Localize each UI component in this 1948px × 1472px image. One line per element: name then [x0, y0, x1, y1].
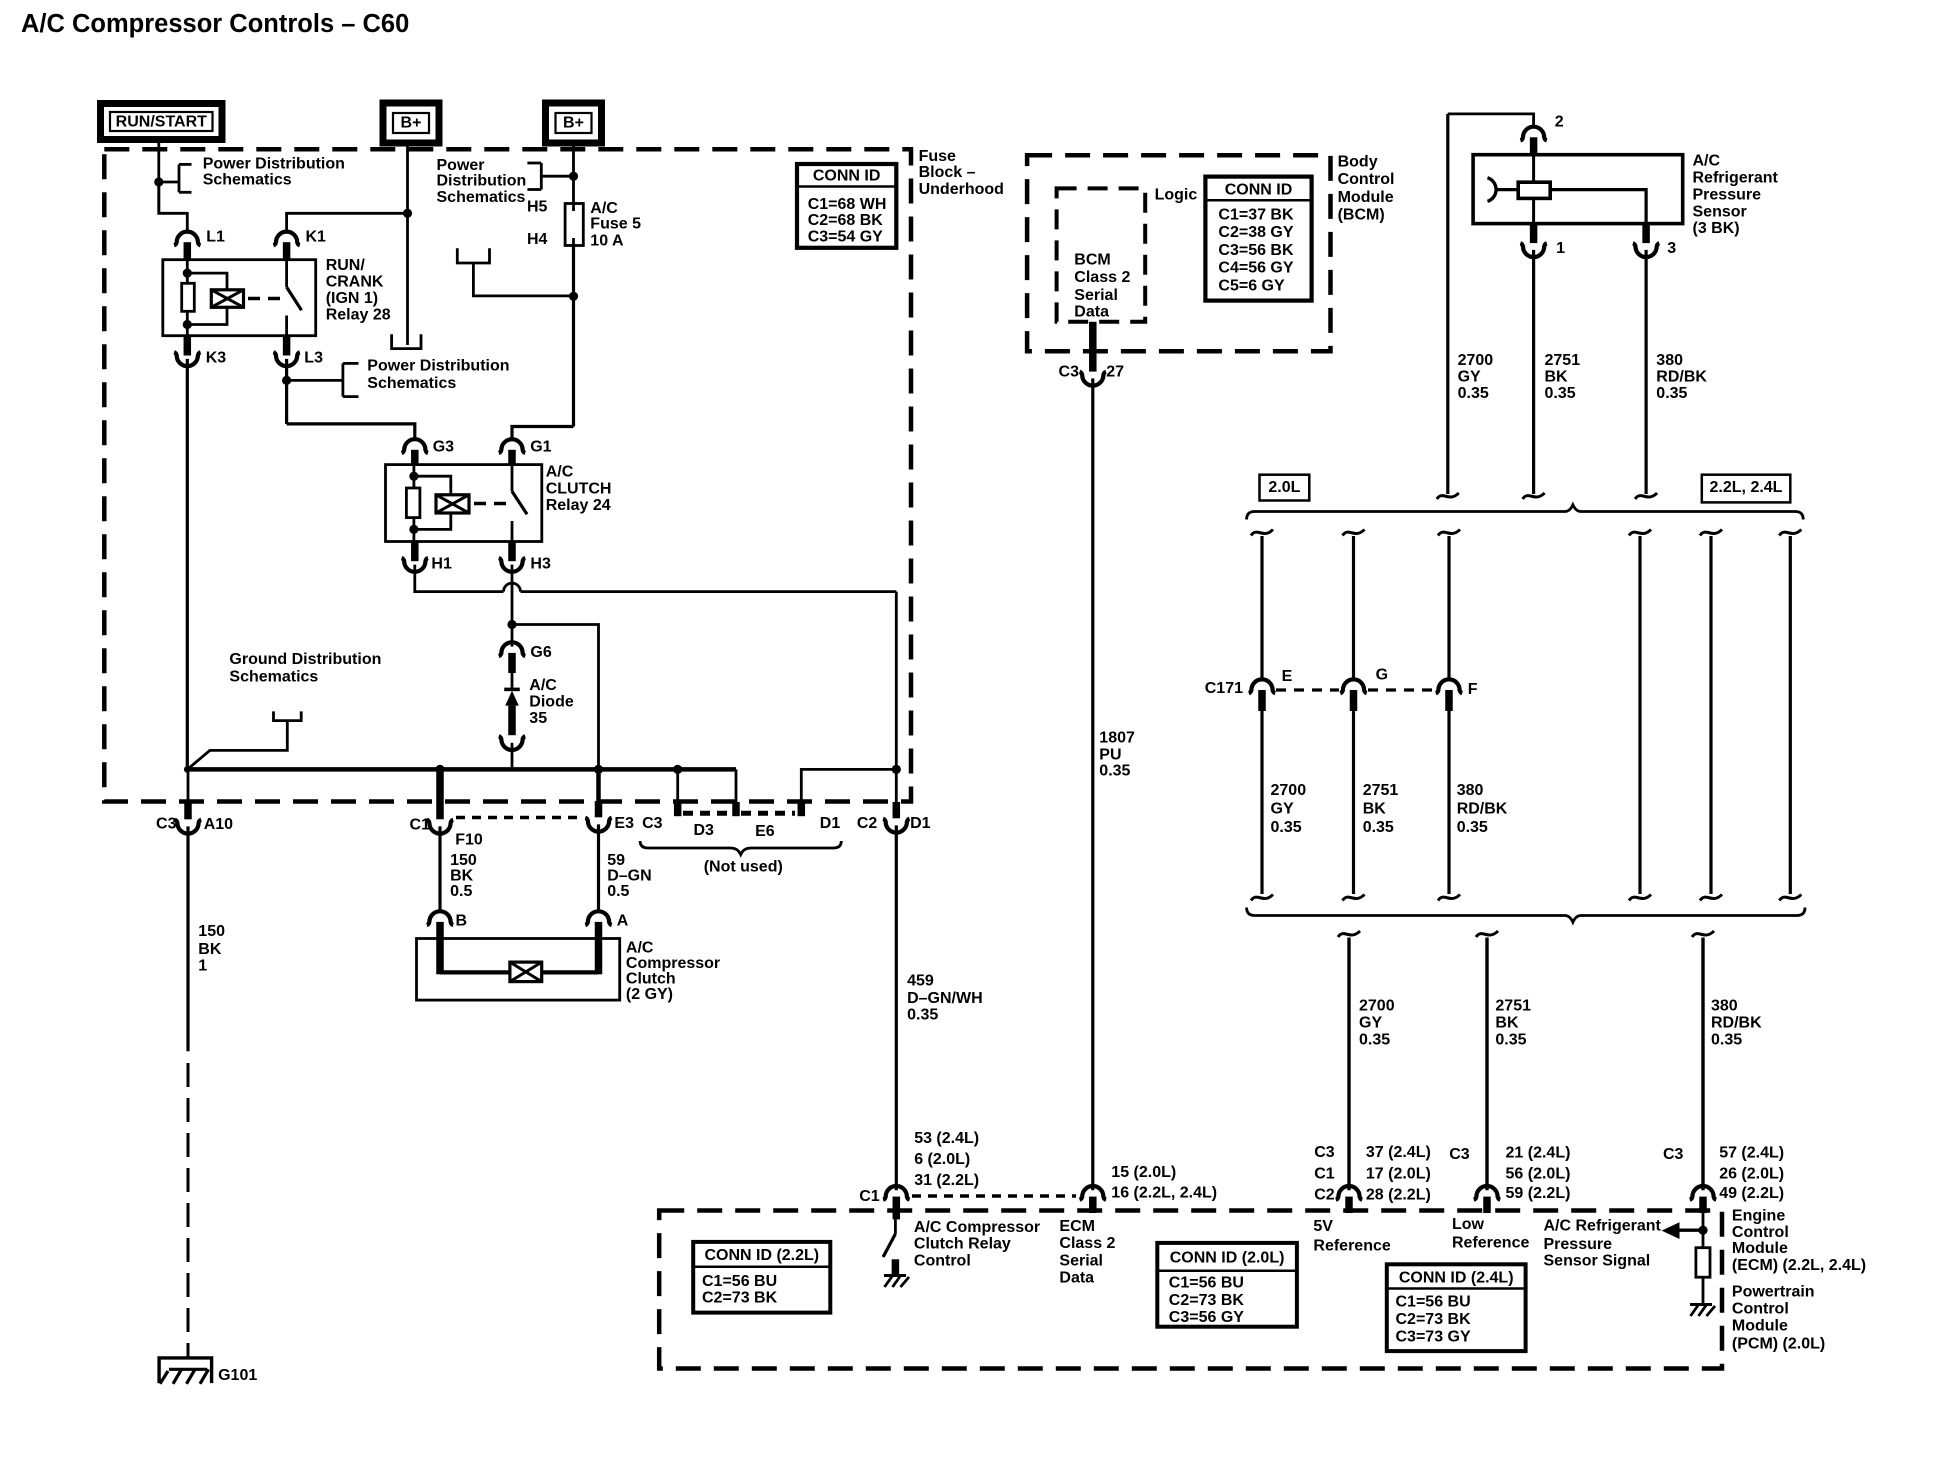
svg-text:2751: 2751 [1545, 352, 1581, 369]
wire 380 upper [1644, 250, 1647, 494]
svg-text:A10: A10 [204, 816, 233, 833]
svg-text:G1: G1 [530, 439, 551, 456]
svg-text:2700: 2700 [1271, 782, 1307, 799]
svg-text:PU: PU [1099, 747, 1121, 764]
svg-text:0.35: 0.35 [1495, 1032, 1526, 1049]
not-used stub E6 [735, 769, 738, 802]
BCM dashed box [1027, 155, 1330, 351]
svg-text:0.35: 0.35 [1359, 1032, 1390, 1049]
svg-text:D3: D3 [694, 822, 715, 839]
CONN ID table (2.2L) [693, 1242, 830, 1313]
connector K3 [184, 336, 192, 356]
svg-text:21 (2.4L): 21 (2.4L) [1506, 1144, 1571, 1161]
svg-text:C3: C3 [156, 816, 177, 833]
svg-text:D1: D1 [910, 815, 931, 832]
connector C2 D1 [893, 802, 901, 818]
tilde mid-top 2 [1343, 530, 1365, 536]
wire mid 5 [1709, 536, 1712, 894]
sensor internal wires [1532, 155, 1535, 224]
connector C171 G [1340, 679, 1366, 693]
wire 49 inside ECM [1702, 1213, 1705, 1248]
svg-text:1807: 1807 [1099, 730, 1135, 747]
svg-text:G3: G3 [433, 439, 454, 456]
connector 5V ref [1336, 1186, 1362, 1200]
svg-text:G: G [1376, 666, 1388, 683]
svg-text:Module: Module [1732, 1240, 1788, 1257]
svg-text:0.35: 0.35 [1271, 819, 1302, 836]
svg-text:ECM: ECM [1059, 1218, 1095, 1235]
svg-text:Logic: Logic [1155, 186, 1198, 203]
off-page cup (ground dist) [274, 711, 302, 720]
svg-text:C2=73 BK: C2=73 BK [1396, 1311, 1472, 1328]
wire H3 branch to E3 column [512, 625, 599, 770]
svg-text:1: 1 [198, 958, 207, 975]
engine box 2.0L [1260, 475, 1310, 501]
svg-text:CRANK: CRANK [326, 274, 384, 291]
connector Low ref [1474, 1186, 1500, 1200]
tilde 2751 [1523, 493, 1545, 499]
svg-text:0.35: 0.35 [1458, 385, 1489, 402]
wire RUN/START down [157, 140, 160, 214]
svg-text:Power: Power [437, 157, 485, 174]
svg-text:H3: H3 [530, 555, 551, 572]
svg-text:Sensor: Sensor [1693, 203, 1747, 220]
svg-text:Pressure: Pressure [1693, 186, 1762, 203]
relay 24 box [386, 465, 542, 542]
svg-text:0.35: 0.35 [1711, 1032, 1742, 1049]
connector G6 [499, 642, 525, 656]
svg-text:F: F [1468, 681, 1478, 698]
fuse F5 A/C 10A [565, 204, 583, 246]
svg-text:Ground Distribution: Ground Distribution [229, 651, 381, 668]
svg-text:57 (2.4L): 57 (2.4L) [1719, 1144, 1784, 1161]
connector C3 A10 [187, 769, 190, 803]
svg-text:C5=6 GY: C5=6 GY [1218, 277, 1285, 294]
svg-text:0.5: 0.5 [607, 883, 629, 900]
svg-text:0.35: 0.35 [1099, 763, 1130, 780]
svg-text:C3: C3 [1059, 364, 1080, 381]
tilde low 1 [1338, 931, 1360, 937]
svg-text:C1: C1 [410, 817, 431, 834]
power node B+ (left) [383, 103, 439, 143]
svg-text:L1: L1 [206, 229, 225, 246]
svg-text:C3: C3 [1314, 1144, 1335, 1161]
svg-text:26 (2.0L): 26 (2.0L) [1719, 1166, 1784, 1183]
clutch coil [510, 962, 542, 982]
svg-text:C2: C2 [857, 815, 878, 832]
svg-text:Schematics: Schematics [203, 171, 292, 188]
engine box 2.2L 2.4L [1702, 475, 1791, 503]
svg-text:0.35: 0.35 [907, 1007, 938, 1024]
tilde 380 [1635, 493, 1657, 499]
svg-text:CONN ID: CONN ID [813, 168, 881, 185]
wire low 3 [1701, 938, 1704, 1191]
CONN ID table (BCM) [1205, 177, 1311, 301]
wire low 2 [1485, 938, 1488, 1191]
svg-text:C1=56 BU: C1=56 BU [1396, 1294, 1471, 1311]
svg-text:RD/BK: RD/BK [1711, 1015, 1762, 1032]
svg-text:E: E [1282, 668, 1293, 685]
A/C compressor clutch box [417, 939, 620, 1001]
svg-text:380: 380 [1656, 352, 1683, 369]
connector 1 [1530, 224, 1538, 244]
connector K1 [273, 232, 299, 246]
tilde mid-bottom 6 [1779, 895, 1801, 901]
wire 2751 upper [1532, 250, 1535, 494]
wire 1807 down [1091, 378, 1094, 1190]
wire B+ left down [406, 144, 409, 346]
signal arrow [1678, 1228, 1703, 1231]
wire E3 to A [597, 824, 600, 911]
relay 24 switch [511, 465, 514, 491]
svg-text:(IGN 1): (IGN 1) [326, 290, 378, 307]
svg-text:Clutch Relay: Clutch Relay [914, 1236, 1011, 1253]
svg-text:Control: Control [914, 1253, 971, 1270]
svg-text:2.2L, 2.4L: 2.2L, 2.4L [1710, 479, 1783, 496]
svg-text:Low: Low [1452, 1216, 1485, 1233]
svg-text:H4: H4 [527, 231, 548, 248]
relay 24 coil [436, 495, 469, 513]
connector 49 (pressure signal) [1690, 1186, 1716, 1200]
tilde mid-top 3 [1438, 530, 1460, 536]
wire to L1 [159, 182, 188, 231]
not-used heavy dashed wire [683, 811, 731, 816]
svg-text:2.0L: 2.0L [1268, 479, 1300, 496]
relay 28 box [163, 260, 316, 336]
svg-text:5V: 5V [1313, 1218, 1333, 1235]
tilde mid-top 5 [1700, 530, 1722, 536]
svg-text:Serial: Serial [1059, 1253, 1103, 1270]
connector G1 [499, 439, 525, 453]
svg-text:0.5: 0.5 [450, 883, 472, 900]
svg-text:C1=56 BU: C1=56 BU [1169, 1275, 1244, 1292]
junction dot [154, 177, 163, 186]
tilde low 3 [1692, 931, 1714, 937]
connector link dashed C1-16 [912, 1194, 1076, 1197]
tilde mid-bottom 4 [1629, 895, 1651, 901]
svg-text:A/C: A/C [529, 677, 557, 694]
svg-text:L3: L3 [304, 349, 323, 366]
svg-text:Engine: Engine [1732, 1208, 1785, 1225]
svg-text:2700: 2700 [1458, 352, 1494, 369]
ECM resistor [1696, 1248, 1710, 1278]
svg-text:BK: BK [198, 941, 222, 958]
svg-text:Schematics: Schematics [367, 375, 456, 392]
svg-text:380: 380 [1457, 782, 1484, 799]
wire fuse down [572, 246, 575, 427]
junction dot L3 [282, 376, 291, 385]
svg-text:K1: K1 [306, 229, 327, 246]
relay 28 coil-switch dashed link [248, 297, 280, 301]
wire mid 2 lower [1352, 711, 1355, 894]
CONN ID table (2.0L) [1157, 1243, 1297, 1327]
connector E3 [596, 769, 601, 815]
svg-text:BK: BK [1545, 369, 1569, 386]
svg-text:D–GN/WH: D–GN/WH [907, 990, 983, 1007]
ECM internal ground [1690, 1303, 1712, 1306]
off-page cup (B+ to power dist) [392, 334, 421, 348]
svg-text:BK: BK [1495, 1015, 1519, 1032]
svg-text:459: 459 [907, 972, 934, 989]
svg-text:Relay 28: Relay 28 [326, 307, 391, 324]
wire mid 6 [1789, 536, 1792, 894]
svg-text:Fuse 5: Fuse 5 [590, 216, 641, 233]
svg-text:RD/BK: RD/BK [1457, 800, 1508, 817]
junction dot bus D3 [673, 765, 682, 774]
connector C171 E [1249, 679, 1275, 693]
connector C1 F10 [436, 769, 444, 819]
ground G101 [159, 1358, 212, 1383]
not-used stub D1 [798, 802, 806, 816]
svg-text:C1: C1 [1314, 1165, 1335, 1182]
svg-text:Block –: Block – [919, 164, 976, 181]
svg-text:A/C Refrigerant: A/C Refrigerant [1544, 1218, 1662, 1235]
svg-text:G6: G6 [530, 644, 551, 661]
svg-text:17 (2.0L): 17 (2.0L) [1366, 1165, 1431, 1182]
relay 28 switch [285, 261, 288, 288]
wire 459 to ECM [895, 825, 898, 1190]
svg-text:Class 2: Class 2 [1059, 1235, 1115, 1252]
off-page bracket (power distribution 2) [527, 162, 541, 165]
junction dot H3/E3 branch [507, 620, 516, 629]
wire low 1 [1347, 938, 1350, 1191]
svg-text:C2=68 BK: C2=68 BK [808, 212, 884, 229]
junction dot on fuse wire [569, 172, 578, 181]
brace upper [1247, 505, 1804, 520]
wire 2700 upper [1446, 114, 1449, 494]
svg-text:2700: 2700 [1359, 998, 1395, 1015]
ground bus wire [187, 767, 736, 772]
brace lower [1247, 908, 1805, 923]
connector link dotted C1-E3 [456, 816, 582, 820]
C171 dashed links [1276, 688, 1339, 691]
wire L3 to G3 [287, 424, 415, 439]
wire dashed to G101 [187, 1063, 190, 1358]
svg-text:B+: B+ [563, 115, 584, 132]
svg-text:C3=54 GY: C3=54 GY [808, 229, 883, 246]
junction dot on B+ wire [403, 209, 412, 218]
sensor top wire [1448, 114, 1534, 127]
connector B [427, 911, 453, 925]
wire 459 down [895, 592, 898, 802]
CONN ID table (2.4L) [1387, 1264, 1526, 1351]
svg-text:Power Distribution: Power Distribution [367, 358, 509, 375]
svg-text:Control: Control [1338, 171, 1395, 188]
wire H1 right with hop [415, 565, 504, 592]
svg-text:C2=38 GY: C2=38 GY [1218, 224, 1293, 241]
svg-text:C3=56 BK: C3=56 BK [1218, 242, 1294, 259]
fuse block - underhood dashed box [104, 149, 911, 801]
relay 24 coil wire top [412, 465, 415, 488]
svg-text:A/C: A/C [1693, 153, 1721, 170]
svg-text:Body: Body [1338, 153, 1378, 170]
off-page bracket (power distribution 3) [287, 379, 343, 382]
svg-text:380: 380 [1711, 998, 1738, 1015]
svg-text:A/C Compressor: A/C Compressor [914, 1219, 1040, 1236]
svg-text:(PCM) (2.0L): (PCM) (2.0L) [1732, 1336, 1825, 1353]
diode A/C 35 [511, 673, 514, 689]
svg-text:C3: C3 [1663, 1146, 1684, 1163]
wire to ECM ground [1702, 1277, 1705, 1303]
clutch coil wires [440, 970, 510, 974]
svg-text:Powertrain: Powertrain [1732, 1284, 1815, 1301]
svg-text:BCM: BCM [1074, 251, 1110, 268]
svg-text:A/C Compressor Controls – C60: A/C Compressor Controls – C60 [21, 10, 409, 38]
tilde mid-bottom 1 [1251, 895, 1273, 901]
svg-text:Module: Module [1338, 189, 1394, 206]
svg-text:C3=73 GY: C3=73 GY [1396, 1329, 1471, 1346]
A/C refrigerant pressure sensor box [1473, 155, 1683, 224]
connector 15/16 (ECM) [1080, 1186, 1106, 1200]
svg-text:10 A: 10 A [590, 232, 624, 249]
svg-text:F10: F10 [455, 832, 483, 849]
ECM switch ground [884, 1274, 906, 1277]
junction dot below fuse [569, 292, 578, 301]
relay 28 coil wire bottom [187, 307, 227, 324]
svg-text:2751: 2751 [1495, 998, 1531, 1015]
svg-text:3: 3 [1667, 240, 1676, 257]
connector 3 [1642, 224, 1650, 244]
svg-text:C3: C3 [1449, 1146, 1470, 1163]
svg-text:Distribution: Distribution [437, 173, 527, 190]
connector G3 [402, 439, 428, 453]
svg-text:C2=73 BK: C2=73 BK [1169, 1292, 1245, 1309]
off-page bracket (power distribution 1) [159, 181, 179, 184]
tilde 2700 [1437, 493, 1459, 499]
tilde low 2 [1476, 931, 1498, 937]
svg-text:BK: BK [1363, 800, 1387, 817]
svg-text:C3=56 GY: C3=56 GY [1169, 1309, 1244, 1326]
ECM C1 switch [894, 1219, 897, 1234]
tilde mid-top 1 [1251, 530, 1273, 536]
svg-text:GY: GY [1458, 369, 1481, 386]
svg-text:Pressure: Pressure [1544, 1236, 1613, 1253]
svg-text:Data: Data [1059, 1270, 1094, 1287]
svg-text:H1: H1 [431, 555, 452, 572]
wire L3 down [285, 359, 288, 424]
connector 2 [1520, 127, 1546, 141]
svg-text:RUN/START: RUN/START [116, 114, 207, 131]
svg-text:E6: E6 [755, 823, 775, 840]
ECM dashed box [659, 1211, 1722, 1369]
wire fuse to G1 [512, 427, 574, 439]
relay 28 coil [211, 290, 243, 308]
wire mid 1 upper [1260, 536, 1263, 679]
connector A [585, 911, 611, 925]
svg-text:G101: G101 [218, 1367, 257, 1384]
svg-text:H5: H5 [527, 199, 548, 216]
junction dot bus E3 [594, 765, 603, 774]
svg-text:CONN ID (2.4L): CONN ID (2.4L) [1399, 1270, 1514, 1287]
svg-text:56 (2.0L): 56 (2.0L) [1506, 1166, 1571, 1183]
svg-text:6 (2.0L): 6 (2.0L) [914, 1151, 970, 1168]
connector L3 [283, 336, 291, 356]
svg-text:CONN ID: CONN ID [1225, 182, 1293, 199]
svg-text:37 (2.4L): 37 (2.4L) [1366, 1144, 1431, 1161]
junction dot D1/459 wire [892, 765, 901, 774]
relay 28 coil wire top [186, 261, 189, 284]
relay 24 coil wire bottom [414, 513, 451, 529]
svg-text:59 (2.2L): 59 (2.2L) [1506, 1185, 1571, 1202]
svg-text:A: A [617, 913, 629, 930]
wire mid 3 lower [1447, 711, 1450, 894]
connector C3 27 (BCM) [1089, 322, 1097, 372]
svg-text:49 (2.2L): 49 (2.2L) [1719, 1185, 1784, 1202]
svg-text:C1: C1 [859, 1188, 880, 1205]
connector H3 [508, 542, 516, 562]
power node B+ (right) [546, 103, 602, 143]
svg-text:0.35: 0.35 [1363, 819, 1394, 836]
svg-text:0.35: 0.35 [1457, 819, 1488, 836]
tilde mid-bottom 2 [1343, 895, 1365, 901]
sensor element link [1497, 188, 1518, 191]
not-used stub D3 [676, 769, 679, 802]
svg-text:C171: C171 [1205, 680, 1243, 697]
wire 150 BK down [186, 826, 189, 1051]
wire mid 2 upper [1352, 536, 1355, 679]
svg-text:CONN ID (2.2L): CONN ID (2.2L) [704, 1247, 819, 1264]
svg-text:Fuse: Fuse [919, 148, 956, 165]
svg-text:GY: GY [1271, 800, 1294, 817]
svg-text:35: 35 [529, 710, 547, 727]
svg-text:Relay 24: Relay 24 [546, 497, 611, 514]
svg-text:Serial: Serial [1074, 287, 1118, 304]
svg-text:28 (2.2L): 28 (2.2L) [1366, 1187, 1431, 1204]
svg-text:(BCM): (BCM) [1338, 207, 1385, 224]
connector H1 [411, 542, 419, 562]
svg-text:D1: D1 [820, 815, 841, 832]
svg-text:53 (2.4L): 53 (2.4L) [914, 1130, 979, 1147]
svg-text:CLUTCH: CLUTCH [546, 480, 612, 497]
svg-text:Class 2: Class 2 [1074, 269, 1130, 286]
svg-text:2: 2 [1555, 113, 1564, 130]
svg-text:RD/BK: RD/BK [1656, 369, 1707, 386]
brace (not used) [640, 841, 841, 855]
sensor transducer arc [1488, 178, 1497, 202]
wire K3 down to ground bus [186, 359, 189, 770]
svg-text:Reference: Reference [1452, 1234, 1529, 1251]
svg-text:B+: B+ [401, 115, 422, 132]
junction dot bus/K3 [184, 766, 191, 773]
svg-text:15 (2.0L): 15 (2.0L) [1111, 1164, 1176, 1181]
svg-text:Diode: Diode [529, 694, 574, 711]
wire H3 down [511, 565, 514, 647]
svg-text:E3: E3 [614, 815, 634, 832]
svg-text:(ECM) (2.2L, 2.4L): (ECM) (2.2L, 2.4L) [1732, 1257, 1866, 1274]
wire mid 1 lower [1260, 711, 1263, 894]
svg-text:Schematics: Schematics [437, 189, 526, 206]
junction dot bus C1 [435, 765, 444, 774]
svg-text:C1=68 WH: C1=68 WH [808, 196, 887, 213]
connector C171 F [1436, 679, 1462, 693]
svg-text:A/C: A/C [546, 464, 574, 481]
sensor element box [1518, 182, 1550, 198]
svg-text:2751: 2751 [1363, 782, 1399, 799]
svg-text:(3 BK): (3 BK) [1693, 220, 1740, 237]
tilde mid-bottom 3 [1438, 895, 1460, 901]
svg-text:Data: Data [1074, 303, 1109, 320]
svg-text:C2=73 BK: C2=73 BK [702, 1290, 778, 1307]
svg-text:Refrigerant: Refrigerant [1693, 170, 1779, 187]
relay 24 resistor [406, 488, 420, 518]
wire mid 4 [1638, 536, 1641, 894]
svg-text:1: 1 [1556, 240, 1565, 257]
svg-text:K3: K3 [206, 349, 227, 366]
svg-text:Power Distribution: Power Distribution [203, 155, 345, 172]
svg-text:(Not used): (Not used) [704, 859, 783, 876]
CONN ID table (fuse block underhood) [797, 164, 896, 248]
svg-text:CONN ID (2.0L): CONN ID (2.0L) [1170, 1250, 1285, 1267]
